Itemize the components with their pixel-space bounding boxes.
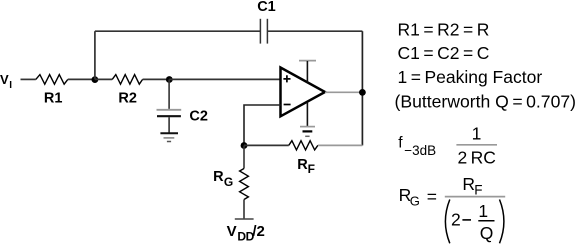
wire node A to R2 xyxy=(95,78,112,80)
svg-text:C1 = C2 = C: C1 = C2 = C xyxy=(398,43,490,63)
svg-text:Q: Q xyxy=(480,223,494,243)
wire RG to VDD/2 terminal xyxy=(243,200,245,220)
svg-text:2 RC: 2 RC xyxy=(457,147,496,167)
svg-text:f: f xyxy=(398,135,403,152)
node B junction xyxy=(166,76,173,83)
svg-text:/2: /2 xyxy=(252,223,265,240)
formula main fraction bar xyxy=(445,196,505,198)
node C output junction xyxy=(359,89,366,96)
label RG equals xyxy=(399,185,437,209)
svg-text:C2: C2 xyxy=(189,108,208,124)
svg-text:R1: R1 xyxy=(44,90,63,106)
svg-text:G: G xyxy=(410,194,420,209)
svg-text:R1 = R2 = R: R1 = R2 = R xyxy=(398,19,490,39)
wire input xyxy=(21,78,36,80)
svg-text:V: V xyxy=(0,72,9,87)
label f-3dB xyxy=(398,135,436,158)
svg-text:2: 2 xyxy=(451,210,461,230)
svg-text:R2: R2 xyxy=(118,90,137,106)
svg-text:C1: C1 xyxy=(257,0,276,15)
wire right vertical xyxy=(361,31,363,145)
svg-text:I: I xyxy=(9,80,12,91)
formula denominator parentheses xyxy=(445,200,504,244)
wire top horizontal C1 to right corner xyxy=(268,30,363,32)
resistor RF xyxy=(289,141,318,176)
wire negative input to node D xyxy=(244,105,281,146)
ground op-amp xyxy=(300,127,315,137)
resistor RG xyxy=(213,146,248,200)
capacitor C1 xyxy=(257,0,276,44)
wire feedback vertical from node A xyxy=(94,31,96,79)
svg-text:(Butterworth Q = 0.707): (Butterworth Q = 0.707) xyxy=(395,92,577,112)
svg-text:V: V xyxy=(227,223,237,240)
svg-text:1 = Peaking Factor: 1 = Peaking Factor xyxy=(398,67,543,87)
formula RF numerator xyxy=(462,174,482,198)
wire node D to RF xyxy=(244,144,289,146)
formula inner fraction 1 over Q xyxy=(478,201,494,243)
power rail positive supply xyxy=(299,61,316,83)
wire op-amp output xyxy=(325,91,362,93)
svg-text:R: R xyxy=(213,169,224,185)
resistor R1 xyxy=(36,75,68,107)
wire top horizontal to C1 xyxy=(95,30,260,32)
formula denominator 2 minus xyxy=(451,210,471,230)
svg-text:R: R xyxy=(462,174,475,194)
wire R2 to node B xyxy=(143,78,170,80)
svg-text:G: G xyxy=(224,175,233,189)
svg-text:1: 1 xyxy=(472,123,482,143)
svg-text:−3dB: −3dB xyxy=(404,143,436,158)
svg-text:F: F xyxy=(474,182,482,197)
formula fraction 1 over 2RC xyxy=(456,123,497,167)
terminal VDD/2 xyxy=(227,219,265,244)
resistor R2 xyxy=(112,75,142,107)
svg-text:=: = xyxy=(427,187,437,207)
wire node B to op-amp plus input xyxy=(169,78,280,80)
node A junction xyxy=(92,76,99,83)
op-amp U1 xyxy=(281,68,326,117)
wire R1 to node A xyxy=(68,78,95,80)
node D junction xyxy=(241,142,248,149)
wire op-amp negative supply pin xyxy=(306,103,308,127)
wire RF to right vertical xyxy=(318,144,363,146)
svg-text:F: F xyxy=(308,162,315,176)
capacitor C2 xyxy=(157,79,208,132)
node VI input label xyxy=(0,72,12,91)
svg-text:1: 1 xyxy=(478,201,488,221)
ground C2 xyxy=(160,133,178,141)
